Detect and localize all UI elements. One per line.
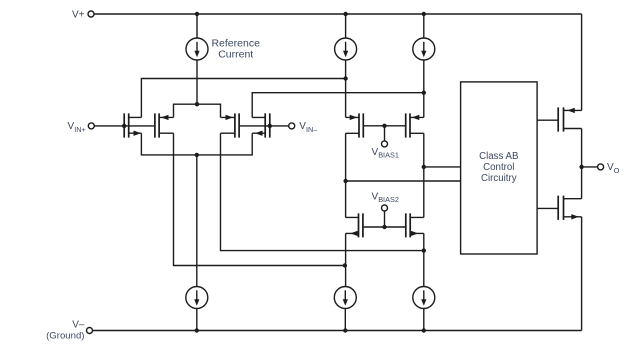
label V_BIAS2 [372, 192, 399, 205]
transistor Q9 PMOS output [558, 107, 581, 131]
terminal V- (Ground) [46, 319, 92, 341]
transistor Q8 NMOS cascode right [406, 213, 424, 237]
node dot top rail at right cascode branch [422, 12, 426, 16]
current source I3 bottom tail [186, 287, 208, 331]
wire PMOS pair tail hat [174, 104, 221, 117]
svg-text:V+: V+ [72, 10, 85, 21]
current source I4 bottom left cascode [334, 287, 356, 331]
svg-text:IN+: IN+ [74, 125, 86, 134]
svg-text:V–: V– [72, 319, 85, 330]
wire output NMOS source to bottom rail [581, 217, 583, 331]
wire Q2 drain to left cascode bottom node [174, 133, 345, 265]
current source I5 bottom right cascode [413, 287, 435, 331]
wire Q1 drain to left cascode top node [141, 79, 345, 118]
svg-text:(Ground): (Ground) [46, 331, 84, 342]
svg-text:Control: Control [483, 162, 514, 173]
wire V_BIAS1 gate line [363, 125, 405, 127]
node dot PMOS tail [195, 102, 199, 106]
node dot NMOS tail [195, 153, 199, 157]
wire V_O node to terminal [582, 166, 598, 168]
terminal V+ [72, 10, 94, 21]
current source I1 top left cascode branch [335, 14, 357, 79]
node dot right cascode top [422, 91, 426, 95]
transistor Q4 NMOS input outer-right [252, 113, 270, 137]
wire NMOS pair tail hat [141, 133, 252, 155]
terminal V_O [598, 162, 620, 175]
wire top rail V+ [94, 13, 581, 15]
wire output PMOS drain to V_O node [581, 129, 583, 167]
transistor Q7 NMOS cascode left [346, 213, 363, 237]
wire bottom rail V- [93, 330, 582, 332]
label Reference Current [211, 37, 260, 60]
node dot left cascode bottom [343, 263, 347, 267]
node dot top rail at reference current [195, 12, 199, 16]
node dot left cascode output [343, 179, 347, 183]
transistor Q6 PMOS cascode right [406, 113, 424, 137]
node dot bottom rail at tail current source [195, 328, 199, 332]
wire left cascode branch vertical [345, 79, 347, 287]
wire right cascode branch vertical [423, 93, 425, 287]
wire output NMOS drain to V_O node [581, 167, 583, 199]
node dot V_IN- at Q4 gate [268, 124, 272, 128]
node dot top rail at left cascode branch [343, 12, 347, 16]
wire Q4 drain to right cascode top node [252, 93, 424, 118]
wire Q3 drain to right cascode bottom node [221, 133, 424, 250]
svg-text:IN–: IN– [306, 125, 318, 134]
node dot right cascode bottom [422, 248, 426, 252]
svg-text:BIAS2: BIAS2 [378, 195, 399, 204]
svg-text:Current: Current [218, 48, 253, 60]
wire Class AB box to output NMOS gate [537, 207, 558, 209]
node dot right cascode output [422, 165, 426, 169]
transistor Q2 PMOS input inner-left [155, 113, 174, 137]
node dot V_BIAS1 [382, 124, 386, 128]
node dot bottom rail at right cascode [422, 328, 426, 332]
node dot bottom rail at left cascode [343, 328, 347, 332]
node dot V_BIAS2 [382, 225, 386, 229]
block U1 Class AB Control Circuitry [461, 82, 537, 254]
current source I2 top right cascode branch [413, 14, 435, 93]
node V_BIAS2 terminal and stub [382, 205, 388, 227]
svg-text:Circuitry: Circuitry [481, 173, 517, 184]
node V_BIAS1 stub and terminal [372, 126, 399, 160]
transistor Q10 NMOS output [558, 196, 581, 220]
current source I_REF reference current [186, 14, 208, 104]
wire left cascode output to Class AB box [346, 180, 461, 182]
svg-text:O: O [614, 166, 620, 175]
node dot V_IN+ at Q1 gate [122, 124, 126, 128]
node dot V_O [579, 165, 583, 169]
transistor Q5 PMOS cascode left [346, 113, 364, 137]
wire NMOS tail down to current source I3 [196, 155, 198, 287]
wire V_BIAS2 gate line [363, 226, 406, 228]
terminal V_IN- [289, 121, 319, 134]
wire right cascode output to Class AB box [424, 166, 461, 168]
wire Class AB box to output PMOS gate [537, 119, 558, 121]
terminal V_IN+ [68, 121, 95, 134]
node dot left cascode top [343, 76, 347, 80]
wire V_IN+ to input gates [95, 125, 155, 127]
wire V+ rail right drop to output PMOS source [581, 14, 583, 110]
svg-text:BIAS1: BIAS1 [378, 151, 399, 160]
svg-text:Class AB: Class AB [479, 151, 518, 162]
transistor Q1 NMOS input outer-left [124, 113, 141, 137]
transistor Q3 PMOS input inner-right [221, 113, 240, 137]
wire V_IN- from input gates [239, 125, 288, 127]
